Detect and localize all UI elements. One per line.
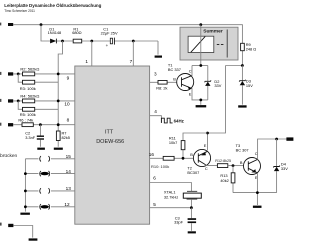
- capacitor C1: [101, 26, 118, 48]
- svg-text:33pF: 33pF: [174, 220, 183, 225]
- wire jumper bus: [25, 159, 74, 212]
- wire pin 6 row: [150, 176, 192, 192]
- ground near pin7: [155, 56, 162, 58]
- node bus 12: [24, 205, 27, 208]
- svg-text:10: 10: [64, 102, 70, 107]
- wire R5 branch: [18, 101, 58, 109]
- node bus 14: [24, 172, 27, 175]
- node T2 emitter top: [206, 132, 209, 135]
- wire pin 1: [85, 41, 91, 66]
- node D1-R1 rail tap: [61, 40, 64, 43]
- node summer bottom: [199, 64, 202, 67]
- svg-text:15: 15: [66, 154, 72, 159]
- ground jumper bus: [20, 213, 30, 215]
- wire T3 emitter row: [233, 173, 277, 205]
- wire D4 stubs: [276, 139, 278, 193]
- resistor R11 10k7: [169, 135, 185, 149]
- wire top rail: [13, 25, 242, 66]
- svg-text:R2: 562kΩ: R2: 562kΩ: [20, 66, 39, 71]
- svg-text:10k7: 10k7: [169, 140, 177, 145]
- svg-text:B: B: [173, 76, 176, 81]
- terminal pad output right: [286, 137, 293, 140]
- svg-text:Leiterplatte Dynamische Öldruc: Leiterplatte Dynamische Öldrucküberwachu…: [4, 2, 101, 8]
- transistor T1 BC337: [168, 62, 194, 96]
- svg-text:+: +: [106, 43, 109, 48]
- wire R3 branch: [18, 74, 58, 82]
- node input A: [17, 73, 20, 76]
- wire supply row: [192, 65, 208, 67]
- diode D1 1N4148: [48, 27, 62, 44]
- svg-text:BC 307: BC 307: [236, 148, 249, 153]
- svg-text:R10: 100k: R10: 100k: [151, 164, 169, 169]
- svg-text:248 Ω: 248 Ω: [246, 46, 257, 51]
- terminal pad top-left: [0, 23, 13, 26]
- svg-text:tbrücken: tbrücken: [0, 153, 18, 159]
- label bruecken: [0, 153, 18, 159]
- node T1 emitter gnd: [199, 99, 202, 102]
- resistor R6: [18, 117, 33, 126]
- wire xtal bottom: [190, 199, 192, 208]
- svg-text:E: E: [189, 92, 192, 97]
- svg-text:3.3nF: 3.3nF: [25, 135, 36, 140]
- jumper open pin 15: [40, 154, 71, 162]
- resistor R1: [72, 27, 82, 43]
- svg-text:64Hz: 64Hz: [174, 118, 185, 123]
- ground T1: [196, 105, 207, 107]
- node rail row A: [57, 73, 60, 76]
- svg-text:3: 3: [154, 71, 157, 76]
- node C2 tap: [39, 123, 42, 126]
- svg-text:R8: 2k: R8: 2k: [156, 85, 167, 90]
- wire T1 emitter: [192, 88, 208, 105]
- resistor R9: [241, 42, 257, 51]
- svg-text:680Ω: 680Ω: [72, 30, 81, 35]
- terminal pad input A: [0, 72, 13, 76]
- wire D2 stubs: [207, 66, 209, 100]
- resistor R13 40k2: [220, 166, 235, 193]
- svg-text:15V: 15V: [246, 83, 253, 88]
- wire R9 D3 branch: [226, 65, 243, 67]
- svg-text:E: E: [204, 143, 207, 148]
- wire T2 collector to R12: [206, 164, 218, 167]
- wire summer drop: [200, 25, 202, 66]
- svg-text:C: C: [205, 166, 208, 171]
- resistor R12: [215, 159, 231, 168]
- subtitle: [4, 9, 35, 13]
- crystal XTAL1: [164, 190, 201, 200]
- resistor R3: [20, 80, 36, 91]
- transistor T3 BC307: [236, 143, 261, 180]
- svg-text:Summer: Summer: [203, 28, 223, 34]
- wire pin 4 stub: [150, 109, 162, 123]
- svg-text:7: 7: [130, 59, 133, 64]
- resistor R10 100k: [151, 156, 174, 169]
- capacitor C2: [25, 125, 44, 147]
- node bus 13: [24, 190, 27, 193]
- resistor R8: [156, 81, 167, 91]
- svg-text:13: 13: [66, 186, 72, 191]
- wire pin 7: [130, 41, 134, 66]
- squarewave symbol 64Hz: [161, 118, 184, 123]
- svg-text:16: 16: [149, 152, 155, 157]
- wire row pin 10: [13, 101, 75, 107]
- resistor R7 82k5: [56, 130, 70, 140]
- svg-text:R6 : 74k: R6 : 74k: [18, 117, 33, 122]
- node R11 bottom: [182, 157, 185, 160]
- svg-text:B: B: [190, 152, 193, 157]
- svg-text:4: 4: [154, 109, 157, 114]
- zener D4 33V: [273, 162, 288, 172]
- ground C2: [37, 148, 45, 150]
- wire T3 collector row: [258, 139, 287, 160]
- node rail-summer: [199, 23, 202, 26]
- wire row pin 9: [13, 74, 75, 81]
- svg-text:1N4148: 1N4148: [48, 30, 62, 35]
- svg-text:ITT: ITT: [105, 129, 114, 135]
- svg-text:BC307: BC307: [187, 170, 199, 175]
- svg-text:5: 5: [153, 202, 156, 207]
- node rail row C: [57, 123, 60, 126]
- node C1 pin1: [90, 40, 93, 43]
- wire pin 3 row: [150, 71, 177, 82]
- svg-text:9: 9: [67, 75, 70, 80]
- wire pin 5 row: [150, 202, 192, 208]
- resistor R2: [20, 66, 39, 75]
- svg-text:22µF 25V: 22µF 25V: [101, 30, 118, 35]
- node R13 tap: [232, 164, 235, 167]
- ground R7: [54, 148, 63, 150]
- wire reference rail vertical: [58, 41, 62, 147]
- wire row pin 8: [13, 118, 75, 125]
- svg-text:1: 1: [85, 59, 88, 64]
- ground T3: [253, 206, 262, 208]
- svg-text:R12:8k25: R12:8k25: [215, 159, 231, 163]
- zener D2 33V: [205, 79, 222, 88]
- jumper open pin 13: [40, 186, 71, 194]
- svg-text:33V: 33V: [281, 166, 288, 171]
- wire pin 16 row: [149, 152, 194, 158]
- wire D1 branch: [41, 25, 158, 55]
- ground D3: [238, 105, 246, 107]
- zener D3 15V: [239, 79, 253, 88]
- svg-text:8: 8: [67, 118, 70, 123]
- node T3 emitter gnd: [256, 191, 259, 194]
- svg-text:BC 337: BC 337: [168, 67, 181, 72]
- svg-text:C: C: [189, 69, 192, 74]
- ground C3: [188, 231, 196, 233]
- svg-text:Timo Schmeiser 2011: Timo Schmeiser 2011: [4, 9, 35, 13]
- svg-text:82k5: 82k5: [62, 135, 70, 140]
- node R9 bottom: [241, 64, 244, 67]
- wire T1 collector: [191, 66, 193, 76]
- title: [4, 2, 101, 8]
- jumper closed pin 14: [40, 169, 71, 176]
- transistor T2 BC307: [187, 143, 210, 175]
- svg-text:R4: 562kΩ: R4: 562kΩ: [20, 93, 39, 98]
- svg-text:33V: 33V: [214, 83, 221, 88]
- wire T2 emitter branch: [208, 66, 226, 151]
- wire D3 stubs: [241, 66, 243, 105]
- wire R11 connection: [183, 133, 208, 158]
- svg-text:DOEW-656: DOEW-656: [96, 139, 124, 145]
- wire R12 to T3 base: [228, 165, 244, 167]
- resistor R4: [20, 93, 39, 102]
- jumper closed pin 12: [40, 202, 70, 210]
- svg-text:6: 6: [153, 176, 156, 181]
- IC U1 ITT DOEW-656: [75, 66, 150, 224]
- wire bottom terminal: [13, 226, 32, 238]
- svg-text:40k2: 40k2: [220, 178, 228, 183]
- node rail-D1: [40, 23, 43, 26]
- terminal pad input B: [0, 99, 13, 103]
- resistor R5: [20, 107, 36, 117]
- node pin7: [132, 40, 135, 43]
- buzzer Summer: [180, 27, 238, 60]
- node input B: [17, 100, 20, 103]
- svg-text:14: 14: [66, 169, 72, 174]
- svg-text:B: B: [240, 160, 243, 165]
- capacitor C3: [174, 208, 196, 231]
- terminal pad input C: [0, 123, 13, 127]
- svg-text:32.7kHz: 32.7kHz: [164, 194, 178, 199]
- node rail row B: [57, 100, 60, 103]
- ground bottom terminal: [29, 238, 38, 240]
- svg-text:R3: 100k: R3: 100k: [20, 86, 36, 91]
- node pin5: [190, 206, 193, 209]
- svg-text:12: 12: [64, 202, 70, 207]
- node D4 top: [275, 138, 278, 141]
- terminal pad bottom-left: [0, 223, 13, 228]
